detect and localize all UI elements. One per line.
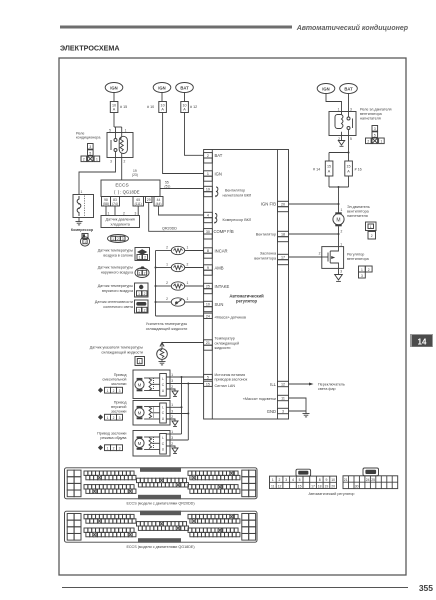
pin 15 LAN [204, 381, 236, 388]
svg-text:2: 2 [319, 252, 321, 256]
svg-text:Вентилятор: Вентилятор [256, 233, 276, 237]
fuse #12 10A [181, 102, 197, 113]
ECCS pin 65(111) [133, 197, 144, 207]
wire motor to regulator [338, 226, 340, 246]
svg-text:# 15: # 15 [120, 105, 127, 109]
svg-text:1: 1 [340, 243, 342, 247]
svg-text:«Масса» подсветки: «Масса» подсветки [243, 397, 276, 401]
svg-text:приводов заслонок: приводов заслонок [215, 377, 248, 381]
svg-text:нагнетателя: нагнетателя [360, 116, 381, 120]
pin 8 INCAR [204, 248, 228, 258]
svg-text:21: 21 [344, 478, 348, 482]
svg-text:нагнетателя: нагнетателя [347, 214, 368, 218]
svg-text:впускного воздуха: впускного воздуха [102, 289, 134, 293]
pin 24 sensor ground [204, 313, 246, 319]
svg-text:L: L [162, 436, 164, 440]
svg-text:3: 3 [119, 447, 121, 451]
svg-text:30: 30 [206, 230, 210, 234]
pin 20 IGN F/B [261, 201, 289, 211]
svg-text:охлаждающей жидкости: охлаждающей жидкости [101, 350, 143, 354]
svg-text:25: 25 [206, 285, 210, 289]
ground unit GND [303, 411, 310, 417]
ECCS pin 44(44) [154, 197, 163, 207]
connector ECCS QR20DD left pin field [84, 471, 136, 493]
compressor clutch [73, 190, 94, 218]
svg-text:5: 5 [350, 137, 352, 141]
svg-text:IGN: IGN [110, 85, 117, 90]
transistor fan regulator [319, 243, 344, 274]
pin 19 blower on [204, 186, 252, 197]
svg-text:3: 3 [350, 108, 352, 112]
connector ECCS QG18DE top tab [140, 511, 181, 516]
svg-text:1: 1 [125, 129, 127, 133]
svg-text:Привод: Привод [114, 373, 128, 377]
svg-text:10: 10 [182, 103, 186, 107]
connector ECCS QG18DE bottom tab [138, 538, 181, 543]
pin 3 GND [267, 408, 289, 414]
svg-text:хладагента: хладагента [111, 222, 131, 226]
svg-text:2: 2 [166, 297, 168, 301]
svg-text:20: 20 [281, 203, 285, 207]
svg-text:1: 1 [108, 212, 110, 216]
connector X2 auto regulator 10pin grid [343, 476, 398, 489]
connector ECCS QR20DD middle pin field [137, 478, 189, 487]
svg-text:1: 1 [138, 292, 140, 296]
svg-text:Датчик температуры: Датчик температуры [98, 284, 134, 288]
svg-text:(58): (58) [103, 202, 109, 206]
svg-text:Датчик интенсивности: Датчик интенсивности [95, 300, 133, 304]
svg-text:вентилятора: вентилятора [360, 112, 383, 116]
wire IGN to fuse 15 [113, 92, 115, 101]
svg-text:Компрессор: Компрессор [71, 228, 94, 232]
svg-text:ЭЛЕКТРОСХЕМА: ЭЛЕКТРОСХЕМА [60, 44, 120, 53]
svg-text:нагнетателя ВКЛ: нагнетателя ВКЛ [223, 193, 252, 197]
connector ECCS QG18DE right pin field [188, 514, 240, 536]
connector X2 auto regulator 10pin tab [363, 468, 379, 476]
connector pressure sensor oval [108, 235, 129, 243]
svg-text:ECCS (модели с двигателями QR2: ECCS (модели с двигателями QR20DD) [126, 502, 194, 506]
svg-text:впускной: впускной [111, 405, 126, 409]
svg-text:1: 1 [171, 430, 173, 434]
wire pin3 to ground [289, 410, 307, 412]
svg-text:1: 1 [171, 403, 173, 407]
svg-text:3: 3 [285, 478, 287, 482]
svg-text:# 12: # 12 [190, 105, 197, 109]
fuse #14 15A [313, 161, 333, 176]
svg-text:8: 8 [319, 478, 321, 482]
svg-text:QR20DD: QR20DD [162, 227, 177, 231]
svg-text:1: 1 [171, 373, 173, 377]
svg-text:11: 11 [281, 397, 285, 401]
svg-text:11: 11 [271, 484, 275, 488]
icon cabin temp sensor [135, 248, 150, 261]
svg-text:14: 14 [418, 338, 427, 347]
svg-text:COMP F/B: COMP F/B [214, 229, 234, 234]
svg-text:ECCS: ECCS [115, 183, 128, 189]
svg-text:1: 1 [139, 271, 141, 275]
wire fuse10 to unit pin1 [163, 113, 204, 174]
svg-text:L: L [162, 405, 164, 409]
svg-text:BAT: BAT [344, 86, 353, 91]
svg-text:# 10: # 10 [147, 105, 154, 109]
svg-text:15: 15 [298, 484, 302, 488]
node IGN (right) [317, 84, 335, 94]
connector actuator M1 [98, 387, 123, 393]
relay K2 blower motor relay [329, 108, 356, 142]
svg-text:вентилятора: вентилятора [254, 256, 277, 260]
svg-text:29: 29 [147, 198, 151, 202]
thermistor cabin temp [156, 246, 204, 255]
svg-text:20: 20 [331, 484, 335, 488]
svg-text:Реле эл.двигателя: Реле эл.двигателя [360, 108, 392, 112]
wire unit pin18 to motor line [289, 233, 339, 235]
connector ECCS QG18DE right end block [242, 514, 256, 541]
svg-text:2: 2 [171, 385, 173, 389]
svg-text:3: 3 [89, 145, 91, 149]
svg-text:заслонки: заслонки [111, 410, 127, 414]
svg-text:1: 1 [107, 447, 109, 451]
svg-text:2: 2 [341, 230, 343, 234]
svg-text:24: 24 [366, 478, 370, 482]
svg-text:GND: GND [267, 409, 276, 414]
svg-text:1: 1 [81, 190, 83, 194]
node IGN (mid) [153, 83, 171, 93]
ECCS pin 98(58) [102, 197, 111, 207]
svg-text:Заслонка: Заслонка [260, 252, 277, 256]
connector ECCS QG18DE outer [65, 511, 258, 542]
ground arrow relay K2 coil [338, 136, 344, 147]
wire feed to motor [338, 187, 340, 214]
svg-text:1: 1 [139, 256, 141, 260]
pin 18 fan [256, 231, 289, 241]
svg-text:2: 2 [144, 292, 146, 296]
svg-text:2: 2 [113, 389, 115, 393]
fuse #15 10A [110, 102, 127, 113]
svg-text:Датчик указателя температуры: Датчик указателя температуры [90, 346, 144, 350]
wire ECCS29 to unit pin30 [149, 203, 204, 232]
svg-text:2: 2 [83, 158, 85, 162]
wires ECCS to pressure sensor [105, 206, 107, 216]
svg-text:2: 2 [279, 478, 281, 482]
svg-text:M: M [138, 383, 142, 388]
svg-text:света фар: света фар [318, 387, 336, 391]
svg-text:режима обдува: режима обдува [100, 436, 127, 440]
svg-text:21: 21 [206, 341, 210, 345]
svg-text:заслонки: заслонки [111, 382, 127, 386]
svg-text:Регулятор: Регулятор [347, 253, 364, 257]
connector ECCS QR20DD marked pins [98, 475, 102, 479]
svg-text:M: M [138, 411, 142, 416]
ground coolant sensor [159, 359, 166, 365]
bus actuator LAN [187, 384, 189, 441]
svg-text:IGN F/B: IGN F/B [261, 202, 276, 207]
svg-text:2: 2 [187, 263, 189, 267]
wire IGN to relay pin1 [326, 93, 342, 111]
svg-text:1: 1 [166, 263, 168, 267]
svg-text:смесительной: смесительной [102, 378, 126, 382]
svg-text:Компрессор ВКЛ: Компрессор ВКЛ [223, 218, 252, 222]
connector ECCS QR20DD right pin field [188, 471, 240, 493]
svg-text:1: 1 [338, 108, 340, 112]
wire relay pin3 to compressor [79, 158, 116, 195]
actuator M1 pins [166, 373, 203, 391]
icon sunlight sensor [135, 300, 149, 313]
svg-text:(44): (44) [156, 202, 162, 206]
svg-text:кондиционера: кондиционера [76, 136, 101, 140]
svg-text:12: 12 [278, 484, 282, 488]
svg-text:2: 2 [207, 154, 209, 158]
pin 21 coolant temp [204, 337, 239, 351]
svg-text:1: 1 [380, 140, 382, 144]
arrow up on wire [160, 343, 164, 347]
pin 17 fan damper [254, 252, 288, 265]
connector ECCS QG18DE left end block [67, 514, 81, 541]
wire ECCS44 to unit pin4 [159, 206, 204, 215]
wire relay pin2 to ECCS pin19 [121, 158, 123, 181]
pin 9 AMB [204, 265, 224, 275]
svg-text:18: 18 [281, 233, 285, 237]
svg-text:2: 2 [117, 237, 119, 241]
svg-text:8: 8 [207, 249, 209, 253]
icon ambient temp sensor [135, 266, 149, 277]
pin 2 BAT [204, 153, 223, 163]
svg-text:3: 3 [361, 274, 363, 278]
pin 11 illumination ground [243, 395, 289, 401]
wire fuse15 to relay [113, 113, 115, 128]
svg-text:24: 24 [206, 315, 210, 319]
svg-text:355: 355 [419, 583, 433, 593]
actuator M3 mode damper [133, 431, 170, 457]
svg-text:12: 12 [281, 383, 285, 387]
svg-text:жидкости: жидкости [215, 346, 231, 350]
fuse #10 10A [147, 102, 166, 113]
svg-text:2: 2 [166, 281, 168, 285]
pin 1 IGN [204, 171, 222, 181]
svg-text:Датчик температуры: Датчик температуры [98, 249, 134, 253]
svg-text:1: 1 [138, 309, 140, 313]
svg-text:Температур: Температур [215, 337, 235, 341]
connector X1 auto regulator 20pin grid [270, 476, 337, 488]
svg-text:2: 2 [113, 416, 115, 420]
svg-text:2: 2 [144, 271, 146, 275]
connector compressor round [80, 234, 89, 247]
svg-text:1: 1 [107, 416, 109, 420]
svg-text:1: 1 [107, 389, 109, 393]
svg-text:Эл.двигатель: Эл.двигатель [347, 205, 370, 209]
connector icon relay K1 [81, 144, 100, 162]
label pressure sensor box [101, 216, 140, 228]
svg-text:Привод заслонки: Привод заслонки [97, 432, 126, 436]
wire pin11 down [289, 398, 307, 411]
wire pin21 to coolant sensor [162, 342, 204, 344]
svg-text:1: 1 [112, 237, 114, 241]
svg-text:10: 10 [331, 478, 335, 482]
schematic frame [59, 58, 406, 575]
svg-text:1: 1 [272, 478, 274, 482]
wire unit pin20 to tap [289, 203, 339, 205]
svg-text:5: 5 [89, 151, 91, 155]
svg-text:1: 1 [96, 158, 98, 162]
svg-text:5: 5 [109, 129, 111, 133]
pin 12 ILL [270, 381, 288, 387]
connector ECCS QG18DE left pin field [84, 514, 136, 536]
svg-text:2: 2 [368, 268, 370, 272]
svg-text:охлаждающей: охлаждающей [215, 341, 240, 345]
connector regulator [359, 266, 373, 278]
svg-text:вентилятора: вентилятора [347, 257, 370, 261]
svg-text:3: 3 [171, 409, 173, 413]
svg-text:10: 10 [206, 303, 210, 307]
svg-text:1: 1 [139, 360, 141, 364]
connector actuator M3 [98, 445, 123, 451]
svg-text:3: 3 [374, 127, 376, 131]
thermistor coolant sensor [157, 349, 168, 360]
svg-text:2: 2 [144, 309, 146, 313]
svg-text:1: 1 [207, 172, 209, 176]
ground arrow actuator M1 [172, 391, 178, 397]
svg-text:17: 17 [281, 256, 285, 260]
svg-text:1: 1 [361, 268, 363, 272]
node BAT (right) [340, 84, 358, 94]
svg-text:(74): (74) [112, 202, 118, 206]
svg-text:2: 2 [113, 447, 115, 451]
svg-text:5: 5 [299, 478, 301, 482]
svg-text:ILL: ILL [270, 382, 276, 387]
svg-text:9: 9 [207, 266, 209, 270]
actuator M2 pins [166, 403, 188, 421]
svg-text:Усилитель температуры: Усилитель температуры [146, 322, 188, 326]
svg-text:(111): (111) [135, 202, 142, 206]
svg-text:AMB: AMB [215, 265, 224, 270]
svg-text:3: 3 [340, 269, 342, 273]
svg-text:1: 1 [370, 225, 372, 229]
svg-text:3: 3 [110, 160, 112, 164]
photo sensor sunlight [156, 297, 204, 306]
svg-text:солнечного света: солнечного света [103, 305, 134, 309]
connector ECCS QR20DD right end block [242, 470, 256, 497]
thermistor ambient temp [156, 263, 204, 272]
connector coolant gauge sensor [135, 357, 145, 366]
svg-text:охлаждающей жидкости: охлаждающей жидкости [146, 327, 188, 331]
sensor common bus [155, 251, 157, 317]
svg-text:Привод: Привод [114, 401, 128, 405]
junction pin18 [338, 233, 340, 235]
svg-text:2: 2 [367, 140, 369, 144]
svg-text:5: 5 [207, 376, 209, 380]
actuator M3 pins [166, 430, 188, 448]
svg-text:19: 19 [325, 484, 329, 488]
footer rule [62, 587, 408, 589]
pin 4 compressor on [204, 212, 252, 224]
svg-text:INCAR: INCAR [215, 248, 228, 253]
svg-text:наружного воздуха: наружного воздуха [101, 270, 134, 274]
ground compressor [76, 218, 83, 225]
svg-text:вентилятора: вентилятора [347, 209, 370, 213]
pin 25 INTAKE [204, 283, 230, 293]
ECCS pin 83(74) [111, 197, 120, 207]
svg-text:15: 15 [346, 165, 350, 169]
svg-text:4: 4 [292, 478, 294, 482]
svg-text:9: 9 [325, 478, 327, 482]
svg-text:Переключатель: Переключатель [318, 382, 345, 386]
wire ECCS55 to unit pin19 [160, 188, 204, 190]
pin 30 COMP F/B [204, 229, 234, 239]
connector ECCS QR20DD outer [65, 468, 258, 499]
ground arrow regulator [335, 268, 343, 281]
connector motor [366, 222, 377, 239]
svg-text:5: 5 [374, 133, 376, 137]
svg-text:3: 3 [171, 379, 173, 383]
bus actuator supply [181, 377, 183, 434]
wire pin12 arrow headlight switch [289, 382, 345, 391]
relay K1 A/C relay [107, 129, 133, 164]
connector icon relay K2 [366, 126, 385, 144]
svg-text:2: 2 [124, 160, 126, 164]
svg-text:3: 3 [119, 389, 121, 393]
svg-text:регулятор: регулятор [236, 299, 258, 304]
wires fuses join [328, 176, 330, 187]
svg-text:«Масса» датчиков: «Масса» датчиков [215, 315, 247, 319]
svg-text:15: 15 [327, 165, 331, 169]
svg-text:Датчик давления: Датчик давления [106, 218, 135, 222]
svg-text:BAT: BAT [215, 153, 223, 158]
svg-text:2: 2 [171, 442, 173, 446]
svg-text:(23): (23) [132, 173, 138, 177]
pin 10 SUN [204, 301, 224, 311]
svg-text:10: 10 [112, 103, 116, 107]
node BAT (mid) [176, 83, 194, 93]
node IGN (left) [105, 83, 123, 93]
svg-text:# 16: # 16 [355, 168, 362, 172]
svg-text:1: 1 [187, 281, 189, 285]
connector X1 auto regulator 20pin tab [296, 469, 311, 476]
svg-text:19: 19 [206, 188, 210, 192]
svg-text:Вентилятор: Вентилятор [225, 189, 245, 193]
svg-text:ECCS (модели с двигателями QG1: ECCS (модели с двигателями QG18DE) [126, 545, 194, 549]
svg-text:( ) : QG18DE: ( ) : QG18DE [114, 190, 140, 195]
actuator M1 mix damper [133, 370, 170, 399]
ECCS pin 29 [146, 197, 153, 203]
svg-text:Автоматический кондиционер: Автоматический кондиционер [296, 24, 409, 32]
wire relay pin5 to fuses [348, 136, 350, 153]
connector ECCS QR20DD left end block [67, 470, 81, 497]
svg-text:25: 25 [371, 478, 375, 482]
svg-text:SUN: SUN [215, 302, 224, 307]
svg-text:M: M [336, 218, 340, 224]
control unit U1 box [204, 150, 289, 420]
svg-text:17: 17 [311, 484, 315, 488]
svg-text:IGN: IGN [215, 171, 222, 176]
svg-text:3: 3 [122, 237, 124, 241]
svg-text:L: L [162, 377, 164, 381]
connector actuator M2 [98, 414, 123, 420]
junction IGN F/B tap [338, 203, 340, 205]
fuse #16 15A [345, 161, 362, 176]
svg-text:воздуха в салоне: воздуха в салоне [103, 253, 133, 257]
svg-text:INTAKE: INTAKE [215, 284, 230, 289]
svg-text:2: 2 [171, 415, 173, 419]
svg-text:30: 30 [355, 485, 359, 489]
ground arrow actuator M3 [172, 448, 178, 454]
svg-text:IGN: IGN [322, 86, 329, 91]
connector ECCS QG18DE marked pins [98, 519, 102, 523]
icon intake temp sensor [135, 283, 149, 297]
ground arrow actuator M2 [172, 421, 178, 427]
svg-text:3: 3 [171, 436, 173, 440]
svg-text:BAT: BAT [180, 85, 189, 90]
svg-text:1: 1 [341, 208, 343, 212]
wire fuse12 to unit pin2 [185, 113, 204, 156]
